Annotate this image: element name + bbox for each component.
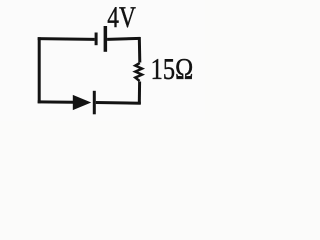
- diode D1 cathode bar: [93, 91, 96, 115]
- svg-text:4V: 4V: [107, 1, 136, 34]
- resistor R1 zigzag: [135, 63, 142, 81]
- wire right lower segment: [138, 82, 141, 105]
- wire bottom-left segment: [38, 100, 73, 103]
- wire left segment: [38, 37, 41, 103]
- svg-text:15Ω: 15Ω: [151, 53, 194, 86]
- wire top-right segment: [107, 38, 140, 39]
- wire top-left segment: [38, 37, 95, 41]
- wire right upper segment: [138, 37, 142, 63]
- battery B1 positive plate (tall bar): [104, 26, 108, 52]
- wire bottom-right segment: [96, 101, 141, 105]
- battery B1 negative plate (short bar): [95, 33, 98, 46]
- diode D1 anode triangle: [73, 95, 91, 110]
